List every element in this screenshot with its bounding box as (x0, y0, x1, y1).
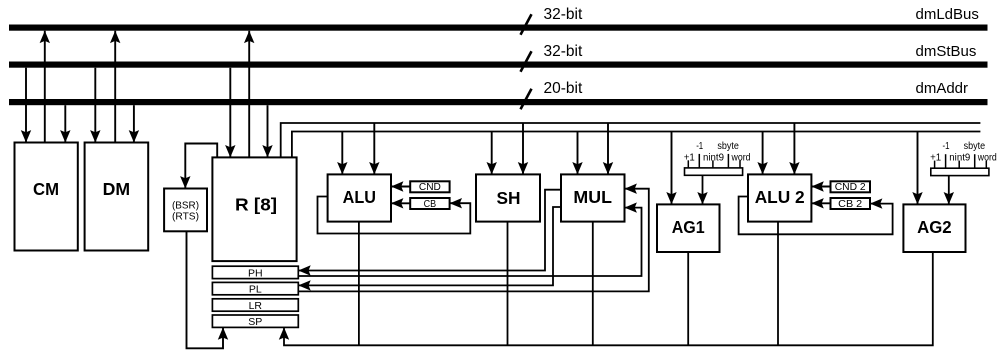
svg-text:CND: CND (419, 181, 441, 193)
svg-text:32-bit: 32-bit (544, 43, 583, 60)
svg-text:PL: PL (249, 284, 262, 296)
svg-text:32-bit: 32-bit (544, 6, 583, 23)
svg-text:dmStBus: dmStBus (916, 43, 977, 60)
svg-text:dmLdBus: dmLdBus (916, 6, 979, 23)
svg-text:R [8]: R [8] (235, 195, 277, 215)
svg-text:+1: +1 (684, 151, 695, 163)
svg-text:-1: -1 (696, 140, 703, 152)
svg-text:AG1: AG1 (672, 217, 705, 237)
svg-text:-1: -1 (943, 140, 950, 152)
svg-text:dmAddr: dmAddr (916, 80, 969, 97)
svg-text:nint9: nint9 (703, 151, 724, 163)
svg-text:nint9: nint9 (949, 152, 970, 164)
svg-text:20-bit: 20-bit (544, 80, 583, 97)
svg-text:sbyte: sbyte (717, 140, 739, 152)
svg-text:SP: SP (248, 316, 262, 328)
svg-text:sbyte: sbyte (964, 140, 986, 152)
svg-text:CB: CB (424, 198, 437, 210)
svg-text:word: word (731, 151, 751, 163)
svg-text:AG2: AG2 (917, 217, 952, 237)
svg-text:+1: +1 (930, 152, 941, 164)
svg-text:ALU: ALU (343, 187, 376, 207)
svg-text:PH: PH (248, 267, 263, 279)
svg-text:word: word (977, 152, 997, 164)
svg-text:CM: CM (33, 179, 59, 199)
svg-text:ALU 2: ALU 2 (755, 187, 805, 207)
svg-text:DM: DM (103, 179, 131, 199)
svg-text:(RTS): (RTS) (172, 211, 199, 223)
svg-text:MUL: MUL (573, 187, 612, 207)
svg-text:(BSR): (BSR) (172, 199, 199, 211)
svg-text:CND 2: CND 2 (835, 181, 866, 193)
svg-text:SH: SH (497, 188, 521, 208)
svg-text:LR: LR (249, 300, 263, 312)
svg-text:CB 2: CB 2 (838, 198, 862, 210)
